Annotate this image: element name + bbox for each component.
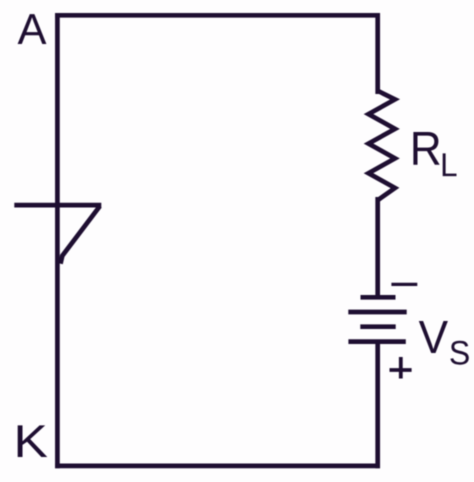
label VS: V bbox=[419, 321, 448, 353]
battery VS plate 2 (long) bbox=[348, 310, 406, 315]
wire: right middle (resistor RL to battery VS) bbox=[375, 197, 380, 297]
battery polarity sign: minus bbox=[391, 283, 417, 286]
node label K (cathode terminal) bbox=[18, 425, 48, 457]
diode/device A-K: diagonal stroke with vertical tail bbox=[61, 206, 100, 264]
label VS: S subscript bbox=[450, 341, 468, 365]
wire: top (A to top-right corner) bbox=[55, 13, 380, 18]
battery VS plate 3 (short) bbox=[360, 324, 395, 329]
node label A (anode terminal) bbox=[18, 14, 47, 44]
label RL: R bbox=[413, 132, 439, 165]
resistor RL (zigzag body) bbox=[369, 91, 396, 200]
battery polarity sign: plus (vertical arm) bbox=[399, 357, 403, 379]
label RL: L subscript bbox=[443, 153, 457, 176]
battery VS plate 1 (short, negative, top) bbox=[361, 295, 396, 300]
battery VS plate 4 (long, positive, bottom) bbox=[348, 339, 405, 344]
wire: left (A to K) bbox=[55, 13, 60, 468]
wire: bottom (K to bottom-right corner) bbox=[55, 464, 380, 469]
wire: right upper (top-right corner to resistor RL) bbox=[375, 13, 380, 94]
battery polarity sign: plus (horizontal arm) bbox=[390, 368, 412, 372]
wire: right lower (battery VS to bottom-right corner) bbox=[375, 342, 380, 469]
diode/device A-K: cathode bar (horizontal) bbox=[14, 203, 101, 208]
